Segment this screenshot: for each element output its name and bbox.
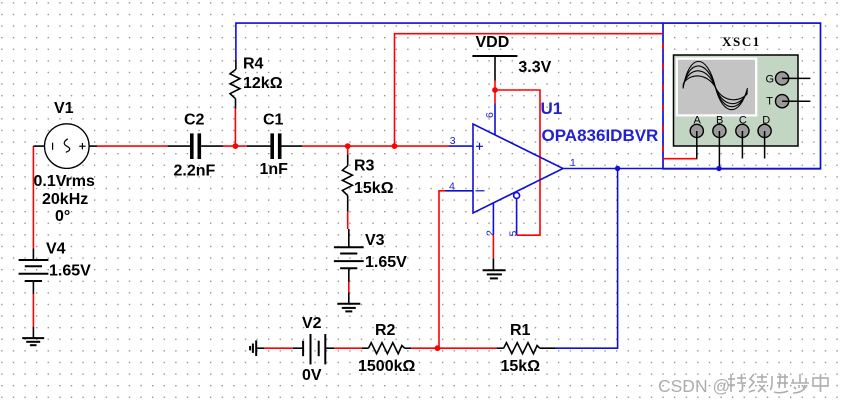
svg-text:VDD: VDD <box>476 34 510 51</box>
svg-text:0.1Vrms: 0.1Vrms <box>34 173 95 190</box>
svg-text:U1: U1 <box>541 99 563 118</box>
svg-text:15kΩ: 15kΩ <box>501 358 541 375</box>
svg-text:B: B <box>716 115 723 127</box>
svg-text:XSC1: XSC1 <box>722 34 761 49</box>
svg-text:CSDN @: CSDN @ <box>658 376 730 396</box>
svg-text:C: C <box>739 115 747 127</box>
svg-text:C1: C1 <box>263 112 284 129</box>
svg-text:3.3V: 3.3V <box>518 59 551 76</box>
svg-text:V4: V4 <box>46 240 66 257</box>
svg-text:V1: V1 <box>54 100 74 117</box>
svg-text:V2: V2 <box>302 315 322 332</box>
svg-text:V3: V3 <box>365 232 385 249</box>
svg-text:1nF: 1nF <box>260 161 289 178</box>
svg-text:6: 6 <box>484 112 496 118</box>
svg-text:OPA836IDBVR: OPA836IDBVR <box>542 126 659 145</box>
svg-text:1: 1 <box>570 157 576 169</box>
svg-text:4: 4 <box>449 180 455 192</box>
svg-text:C2: C2 <box>184 112 205 129</box>
svg-text:D: D <box>762 115 770 127</box>
svg-text:R4: R4 <box>243 56 264 73</box>
svg-text:R2: R2 <box>375 322 396 339</box>
svg-text:0°: 0° <box>55 208 70 225</box>
svg-text:2: 2 <box>485 230 497 236</box>
svg-text:5: 5 <box>508 231 520 237</box>
svg-text:T: T <box>766 96 773 108</box>
svg-text:G: G <box>766 73 775 85</box>
svg-text:A: A <box>694 115 702 127</box>
svg-text:1500kΩ: 1500kΩ <box>358 358 415 375</box>
svg-text:R1: R1 <box>510 322 531 339</box>
svg-text:R3: R3 <box>354 158 375 175</box>
svg-text:1.65V: 1.65V <box>49 263 91 280</box>
svg-text:2.2nF: 2.2nF <box>174 163 216 180</box>
svg-text:1.65V: 1.65V <box>365 254 407 271</box>
svg-text:3: 3 <box>450 135 456 147</box>
svg-text:20kHz: 20kHz <box>42 191 88 208</box>
svg-text:12kΩ: 12kΩ <box>243 75 283 92</box>
svg-text:0V: 0V <box>302 367 322 384</box>
svg-text:15kΩ: 15kΩ <box>354 180 394 197</box>
